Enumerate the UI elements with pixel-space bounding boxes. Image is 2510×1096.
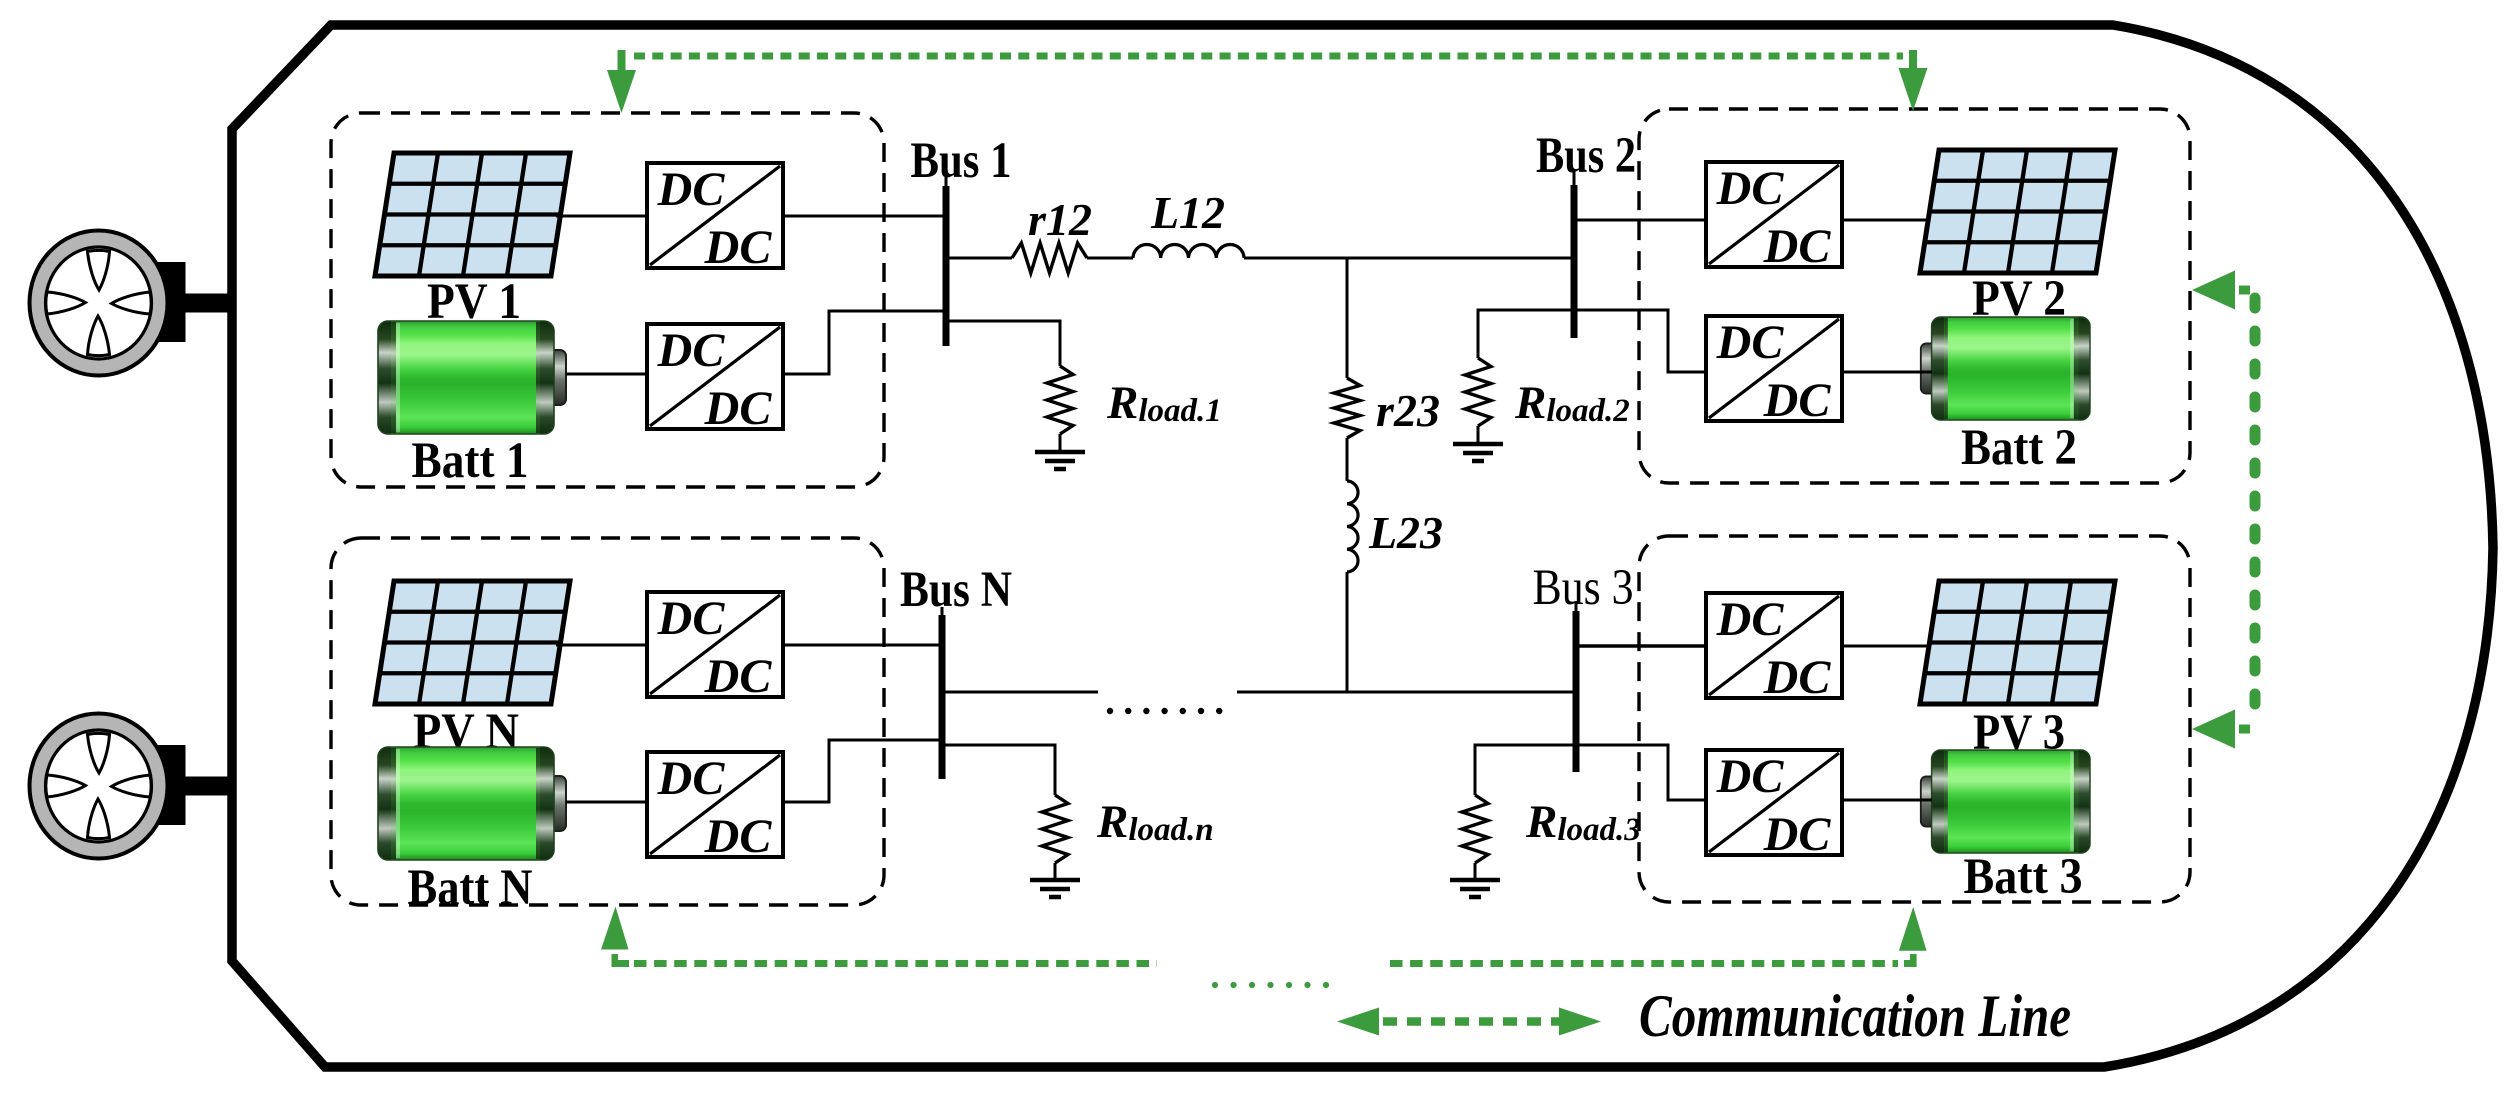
wire junction to r23	[1346, 258, 1349, 378]
dots ellipsis on tie line	[1107, 708, 1113, 714]
DC/DC converter U3b	[1706, 750, 1842, 861]
battery Batt 3	[1921, 750, 2090, 853]
wire converter to Batt3	[1842, 799, 1932, 802]
resistor Rload.1	[1047, 366, 1073, 434]
wire L23 to lower tie line	[1346, 572, 1349, 694]
ground load 1	[1035, 452, 1085, 469]
wire Bus 3 to converter U3a	[1576, 644, 1707, 647]
wire converter UNb to Bus N	[783, 740, 942, 802]
wire Bus1 to Rload.1	[946, 321, 1060, 366]
wire L12 to Bus 2	[1244, 257, 1574, 260]
wire Bus 2 to converter U2a	[1574, 219, 1707, 222]
propeller thruster bottom	[30, 714, 234, 859]
DC/DC converter U1a	[647, 163, 783, 274]
communication arrow up into unit 3	[1899, 907, 1927, 967]
resistor Rload.3	[1462, 795, 1488, 863]
wire converter U1b to Bus 1	[783, 311, 946, 374]
DC/DC converter U3a	[1706, 593, 1842, 704]
svg-text:Rload.2: Rload.2	[1514, 377, 1630, 429]
wire converter to PV2	[1842, 219, 1928, 222]
solar panel PV2	[1920, 150, 2115, 273]
bus bar Bus 2	[1573, 172, 1576, 190]
ground load 3	[1450, 880, 1500, 897]
wire r12 to L12	[1087, 257, 1133, 260]
DC/DC converter UNb	[647, 752, 783, 863]
svg-text:Rload.3: Rload.3	[1525, 796, 1641, 848]
resistor r12	[1012, 243, 1087, 273]
communication arrow into unit 2 right side	[2192, 271, 2250, 310]
wire Bus2 to Rload.2	[1478, 310, 1574, 358]
svg-text:Batt 3: Batt 3	[1964, 849, 2083, 905]
wire PVN to converter	[556, 644, 648, 647]
communication arrow into unit 3 right side	[2192, 710, 2250, 749]
resistor Rload.2	[1465, 358, 1491, 426]
svg-text:Bus 1: Bus 1	[911, 133, 1012, 189]
wire Bus3 to Rload.3	[1475, 745, 1576, 795]
wire BattN to converter	[566, 801, 648, 804]
svg-text:L12: L12	[1150, 187, 1225, 238]
svg-text:r12: r12	[1028, 194, 1092, 245]
wire r23 to L23	[1346, 438, 1349, 481]
wire converter to Batt2	[1842, 371, 1932, 374]
communication arrow down into unit 2	[1899, 50, 1928, 111]
svg-text:r23: r23	[1376, 385, 1440, 436]
inductor L23	[1347, 481, 1358, 572]
propeller thruster top	[30, 231, 234, 376]
dashed box unit N	[331, 538, 884, 905]
ground load n	[1030, 880, 1080, 897]
dashed box unit 2	[1639, 109, 2190, 483]
svg-text:Rload.n: Rload.n	[1096, 796, 1214, 848]
svg-text:Batt N: Batt N	[408, 860, 533, 916]
DC/DC converter UNa	[647, 592, 783, 703]
wire converter UNa to Bus N	[783, 644, 942, 647]
svg-text:Rload.1: Rload.1	[1106, 377, 1222, 429]
wire Bus 3 to converter U3b	[1576, 745, 1707, 800]
communication dashed line bottom right segment	[1390, 960, 1898, 967]
dashed box unit 3	[1639, 536, 2190, 902]
resistor Rload.n	[1042, 795, 1068, 863]
wire converter U1a to Bus 1	[783, 215, 946, 218]
wire BusN to Rload.n	[942, 745, 1055, 795]
communication dotted line right vertical	[2250, 298, 2261, 722]
battery Batt 1	[378, 321, 566, 434]
wire Bus 2 to converter U2b	[1574, 310, 1707, 372]
bus bar Bus N	[941, 607, 944, 620]
DC/DC converter U1b	[647, 324, 783, 435]
dashed box unit 1	[331, 113, 884, 487]
communication arrow up into unit N	[601, 907, 629, 968]
resistor r23	[1334, 378, 1360, 438]
svg-text:L23: L23	[1368, 507, 1443, 558]
green dots ellipsis bottom	[1212, 982, 1218, 988]
bus bar Bus 3	[1575, 601, 1578, 615]
solar panel PV1	[375, 153, 570, 276]
communication dotted line top	[634, 53, 1903, 60]
wire converter to PV3	[1842, 645, 1928, 648]
DC/DC converter U2b	[1706, 316, 1842, 427]
svg-text:Batt 2: Batt 2	[1961, 420, 2077, 476]
inductor L12	[1133, 244, 1244, 258]
wire Batt1 to converter	[566, 373, 648, 376]
battery Batt N	[378, 747, 566, 860]
wire PV1 to converter	[556, 215, 648, 218]
bus bar Bus 1	[945, 175, 948, 190]
solar panel PV3	[1920, 581, 2115, 704]
svg-text:Batt 1: Batt 1	[412, 433, 529, 489]
battery Batt 2	[1921, 317, 2090, 420]
solar panel PVN	[375, 581, 570, 704]
double arrow communication legend	[1383, 1017, 1562, 1026]
wire Bus1 to resistor r12	[946, 257, 1012, 260]
svg-text:Bus 2: Bus 2	[1536, 128, 1636, 184]
ground load 2	[1453, 444, 1503, 461]
svg-text:Communication Line: Communication Line	[1639, 983, 2071, 1049]
svg-text:Bus 3: Bus 3	[1533, 560, 1634, 616]
wire Bus N to dots	[942, 691, 1098, 694]
communication dashed line bottom left segment	[634, 960, 1157, 967]
DC/DC converter U2a	[1706, 162, 1842, 273]
wire dots to Bus 3	[1237, 691, 1576, 694]
communication arrow down into unit 1	[607, 50, 636, 113]
svg-text:Bus N: Bus N	[900, 562, 1012, 618]
